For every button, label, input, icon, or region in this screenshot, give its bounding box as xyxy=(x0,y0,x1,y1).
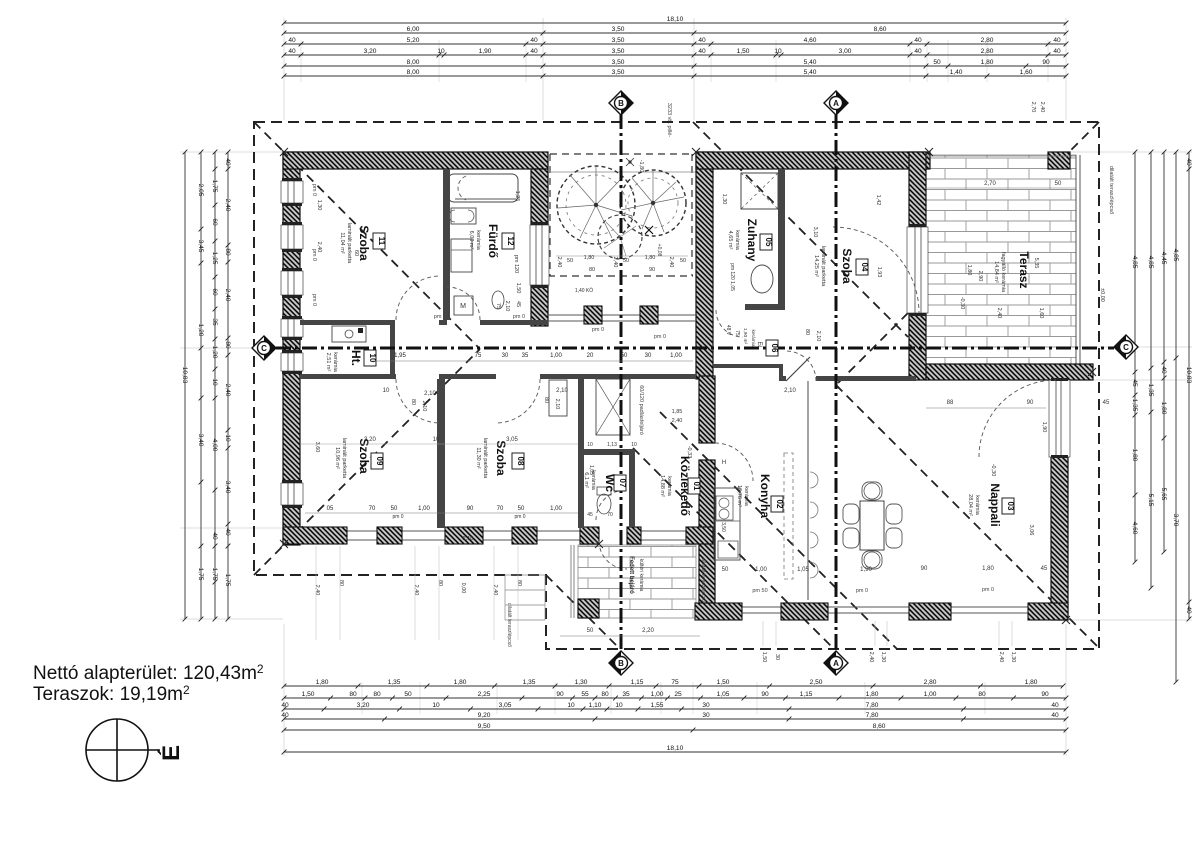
svg-text:1,20: 1,20 xyxy=(197,324,204,337)
svg-text:3,10: 3,10 xyxy=(812,227,818,238)
svg-text:25: 25 xyxy=(674,691,682,698)
svg-text:3,06: 3,06 xyxy=(1028,525,1034,536)
svg-text:15,76 m²: 15,76 m² xyxy=(736,485,742,507)
svg-text:5,15: 5,15 xyxy=(1147,494,1154,507)
svg-text:40: 40 xyxy=(281,702,289,709)
svg-text:3,20: 3,20 xyxy=(357,702,370,709)
svg-text:2,40: 2,40 xyxy=(224,384,231,397)
svg-text:50: 50 xyxy=(722,567,729,573)
svg-text:50: 50 xyxy=(587,628,594,634)
svg-text:4,60: 4,60 xyxy=(1131,522,1138,535)
svg-text:40: 40 xyxy=(1051,712,1059,719)
svg-text:1,20: 1,20 xyxy=(211,346,218,359)
svg-text:2,70: 2,70 xyxy=(984,181,996,187)
svg-text:40: 40 xyxy=(1053,48,1061,55)
svg-text:8,60: 8,60 xyxy=(873,723,886,730)
svg-text:4,45: 4,45 xyxy=(1160,252,1167,265)
svg-text:0,00: 0,00 xyxy=(460,583,466,594)
svg-text:80: 80 xyxy=(589,267,595,273)
svg-text:8,60: 8,60 xyxy=(874,26,887,33)
svg-text:kerámia: kerámia xyxy=(734,230,740,251)
svg-text:Fürdő: Fürdő xyxy=(486,224,500,258)
svg-text:2,10: 2,10 xyxy=(463,536,474,542)
svg-text:2,90: 2,90 xyxy=(977,271,983,282)
wall: courtyard east wall xyxy=(696,152,713,379)
svg-text:40: 40 xyxy=(1160,366,1167,374)
svg-text:1,80: 1,80 xyxy=(982,566,994,572)
svg-text:Fedett bejáró: Fedett bejáró xyxy=(628,556,634,594)
svg-text:1,35: 1,35 xyxy=(1147,384,1154,397)
svg-text:40: 40 xyxy=(530,48,538,55)
svg-text:10: 10 xyxy=(587,442,593,448)
svg-text:70: 70 xyxy=(369,506,376,512)
svg-text:40: 40 xyxy=(1185,606,1192,614)
wall: nappali east wall xyxy=(1051,457,1068,620)
svg-text:20: 20 xyxy=(587,353,594,359)
svg-text:40: 40 xyxy=(698,48,706,55)
washbasin (Zuhany) xyxy=(751,265,773,293)
wall between zuhany and szoba04 xyxy=(778,169,785,308)
svg-text:pm 50: pm 50 xyxy=(752,588,767,594)
svg-text:dilatált teraszlépcső: dilatált teraszlépcső xyxy=(506,603,512,647)
svg-text:50: 50 xyxy=(623,258,629,264)
svg-text:60/120 padlásfeljáró: 60/120 padlásfeljáró xyxy=(638,385,644,435)
svg-text:2,25: 2,25 xyxy=(478,691,491,698)
svg-text:3,50: 3,50 xyxy=(612,37,625,44)
svg-text:2,40: 2,40 xyxy=(224,289,231,302)
svg-text:1,05: 1,05 xyxy=(588,465,594,475)
svg-text:1,80: 1,80 xyxy=(645,255,656,261)
svg-text:60: 60 xyxy=(211,288,218,296)
svg-text:3,50: 3,50 xyxy=(720,522,726,532)
svg-text:1,80: 1,80 xyxy=(1131,449,1138,462)
svg-text:8,00: 8,00 xyxy=(407,69,420,76)
section marker A top xyxy=(824,91,848,115)
tree 3 (small) xyxy=(598,215,642,259)
svg-text:40: 40 xyxy=(224,528,231,536)
svg-text:10: 10 xyxy=(383,388,390,394)
svg-text:B: B xyxy=(618,659,624,668)
svg-text:55: 55 xyxy=(581,691,589,698)
svg-text:09: 09 xyxy=(375,457,384,466)
svg-text:1,05: 1,05 xyxy=(717,691,730,698)
svg-text:08: 08 xyxy=(516,457,525,466)
svg-text:50: 50 xyxy=(680,258,686,264)
svg-text:pm 0: pm 0 xyxy=(311,184,317,196)
svg-text:pm 0: pm 0 xyxy=(514,514,525,520)
svg-text:11,04 m²: 11,04 m² xyxy=(339,232,345,253)
svg-text:40: 40 xyxy=(1185,158,1192,166)
svg-text:11,30 m²: 11,30 m² xyxy=(475,447,481,468)
tree 1 xyxy=(557,166,635,244)
svg-text:1,90 m²: 1,90 m² xyxy=(742,328,748,345)
svg-text:40: 40 xyxy=(224,158,231,166)
svg-text:2,40: 2,40 xyxy=(316,242,322,253)
svg-text:40: 40 xyxy=(1053,37,1061,44)
washing machine M xyxy=(454,296,473,315)
svg-text:40: 40 xyxy=(914,48,922,55)
wall between rooms 09 and 08 xyxy=(437,379,445,528)
svg-text:80: 80 xyxy=(978,691,986,698)
svg-text:50: 50 xyxy=(1055,181,1062,187)
svg-text:1,80: 1,80 xyxy=(1025,679,1038,686)
wall: kitchen west wall upper xyxy=(699,376,715,443)
svg-text:1,00: 1,00 xyxy=(550,506,562,512)
svg-text:3,05: 3,05 xyxy=(499,702,512,709)
Ht east wall xyxy=(390,325,395,374)
svg-text:1,75: 1,75 xyxy=(211,180,218,193)
svg-text:90: 90 xyxy=(1041,691,1049,698)
svg-text:dilatált teraszlépcső: dilatált teraszlépcső xyxy=(700,558,706,602)
svg-text:60: 60 xyxy=(211,218,218,226)
svg-text:1,90: 1,90 xyxy=(479,48,492,55)
wall: west exterior wall xyxy=(283,152,300,545)
svg-text:5,65: 5,65 xyxy=(1160,488,1167,501)
svg-text:1,00: 1,00 xyxy=(651,691,664,698)
svg-text:2,40: 2,40 xyxy=(668,257,674,268)
bathtub (Furdo) xyxy=(448,174,518,202)
svg-text:80: 80 xyxy=(516,580,522,586)
svg-text:Terasz: Terasz xyxy=(1017,251,1031,288)
svg-text:1,60: 1,60 xyxy=(1020,69,1033,76)
svg-text:1,00: 1,00 xyxy=(418,506,430,512)
svg-text:3,50: 3,50 xyxy=(612,48,625,55)
svg-text:40: 40 xyxy=(288,37,296,44)
svg-text:3,45: 3,45 xyxy=(197,240,204,253)
zuhany south wall xyxy=(745,304,785,310)
wall: kitchen west wall lower xyxy=(699,460,715,607)
svg-text:10,96 m²: 10,96 m² xyxy=(334,447,340,469)
svg-text:3,50: 3,50 xyxy=(612,69,625,76)
wall: terrace west wall xyxy=(909,152,926,380)
svg-text:10: 10 xyxy=(774,48,782,55)
svg-text:Teraszok: 19,19m2: Teraszok: 19,19m2 xyxy=(33,683,190,705)
svg-text:10: 10 xyxy=(631,442,637,448)
corridor dimension row xyxy=(370,360,693,362)
svg-text:-0,33: -0,33 xyxy=(686,446,692,459)
svg-text:90: 90 xyxy=(1042,59,1050,66)
svg-text:40: 40 xyxy=(1051,702,1059,709)
svg-text:14,25 m²: 14,25 m² xyxy=(813,255,819,277)
window in courtyard west wall xyxy=(530,222,549,288)
svg-text:90: 90 xyxy=(649,267,655,273)
section marker C left xyxy=(252,336,276,360)
svg-text:40: 40 xyxy=(288,48,296,55)
svg-text:2,40: 2,40 xyxy=(492,585,498,596)
svg-text:1,00: 1,00 xyxy=(755,567,767,573)
svg-text:1,50: 1,50 xyxy=(717,679,730,686)
svg-text:50: 50 xyxy=(404,691,412,698)
bottom wall right wing: sill lines xyxy=(696,606,1068,608)
svg-text:2,40: 2,40 xyxy=(556,257,562,268)
svg-text:1,93: 1,93 xyxy=(876,267,882,278)
svg-text:70: 70 xyxy=(497,506,504,512)
svg-text:80: 80 xyxy=(437,580,443,586)
svg-text:75: 75 xyxy=(475,353,482,359)
svg-text:10: 10 xyxy=(615,702,623,709)
svg-text:1,10: 1,10 xyxy=(589,702,602,709)
section marker B top xyxy=(609,91,633,115)
svg-text:pm 0: pm 0 xyxy=(592,327,604,333)
svg-text:30: 30 xyxy=(645,353,652,359)
extension lines below walls xyxy=(315,546,317,640)
svg-text:2,80: 2,80 xyxy=(981,48,994,55)
svg-text:1,80: 1,80 xyxy=(866,691,879,698)
svg-text:40: 40 xyxy=(281,712,289,719)
svg-text:06: 06 xyxy=(770,344,779,353)
svg-text:2,70: 2,70 xyxy=(1030,102,1036,113)
bottom dimension block xyxy=(283,624,285,756)
svg-text:60: 60 xyxy=(353,250,359,256)
svg-text:2,50: 2,50 xyxy=(810,679,823,686)
svg-text:2,40: 2,40 xyxy=(996,308,1002,319)
svg-text:A: A xyxy=(833,659,839,668)
svg-text:7,80: 7,80 xyxy=(866,702,879,709)
svg-text:80: 80 xyxy=(224,341,231,349)
chairs xyxy=(843,504,859,524)
svg-text:4,65 m²: 4,65 m² xyxy=(727,231,733,250)
svg-text:3,50: 3,50 xyxy=(612,59,625,66)
svg-text:2,10: 2,10 xyxy=(784,388,796,394)
svg-text:1,80: 1,80 xyxy=(584,255,595,261)
svg-text:90: 90 xyxy=(921,566,928,572)
terrace door from szoba04 xyxy=(907,224,928,316)
svg-text:40: 40 xyxy=(530,37,538,44)
svg-text:28,04 m²: 28,04 m² xyxy=(967,494,973,516)
svg-text:07: 07 xyxy=(618,479,627,488)
corridor south wall seg3 xyxy=(540,374,696,379)
svg-text:1,00: 1,00 xyxy=(670,353,682,359)
svg-text:48 V: 48 V xyxy=(725,325,731,336)
svg-text:45: 45 xyxy=(587,512,593,518)
svg-text:2,10: 2,10 xyxy=(556,388,568,394)
svg-text:80: 80 xyxy=(804,329,810,335)
szoba04 south wall step xyxy=(779,364,783,381)
svg-text:90: 90 xyxy=(467,506,474,512)
svg-text:Ht.: Ht. xyxy=(349,350,363,366)
svg-text:11: 11 xyxy=(377,237,386,246)
svg-text:80: 80 xyxy=(601,691,609,698)
svg-text:É: É xyxy=(157,745,185,761)
right dimension block xyxy=(1068,151,1192,153)
svg-text:6,00: 6,00 xyxy=(407,26,420,33)
svg-text:14,84 m²: 14,84 m² xyxy=(993,261,999,283)
wall: porch pillar xyxy=(578,599,599,618)
svg-text:Szoba: Szoba xyxy=(840,248,854,284)
svg-text:M: M xyxy=(460,303,466,310)
svg-text:70: 70 xyxy=(607,512,613,518)
svg-text:1,30: 1,30 xyxy=(880,652,886,663)
svg-text:1,80: 1,80 xyxy=(966,265,972,276)
svg-text:80: 80 xyxy=(349,691,357,698)
svg-text:kerámia: kerámia xyxy=(332,352,338,373)
bottom wall left wing: sill lines xyxy=(283,530,695,532)
svg-text:1,05: 1,05 xyxy=(797,567,809,573)
svg-text:05: 05 xyxy=(327,506,334,512)
svg-text:10: 10 xyxy=(437,48,445,55)
corridor north wall seg3 xyxy=(480,320,548,325)
svg-text:2,40: 2,40 xyxy=(1039,102,1045,113)
svg-text:18,10: 18,10 xyxy=(667,745,684,752)
svg-text:C: C xyxy=(261,344,267,353)
svg-text:2,10: 2,10 xyxy=(421,401,427,412)
svg-text:1,75: 1,75 xyxy=(197,568,204,581)
svg-text:6,00 m²: 6,00 m² xyxy=(468,231,474,250)
svg-text:90: 90 xyxy=(556,691,564,698)
left dimension block xyxy=(180,151,283,153)
svg-text:5,40: 5,40 xyxy=(804,69,817,76)
corridor north wall seg2 xyxy=(439,320,447,325)
svg-text:80: 80 xyxy=(373,691,381,698)
wall room08 east xyxy=(578,379,584,528)
svg-text:kerámia: kerámia xyxy=(475,230,481,251)
svg-text:B: B xyxy=(618,99,624,108)
section marker B bottom xyxy=(609,651,633,675)
svg-text:H: H xyxy=(722,460,726,466)
svg-text:40: 40 xyxy=(211,532,218,540)
svg-text:1,60: 1,60 xyxy=(1038,308,1044,319)
svg-text:1,30: 1,30 xyxy=(721,194,727,205)
svg-text:04: 04 xyxy=(860,263,869,272)
svg-text:Szoba: Szoba xyxy=(357,438,371,474)
svg-text:1,80: 1,80 xyxy=(316,679,329,686)
wall: north wall left wing xyxy=(283,152,548,169)
svg-text:75: 75 xyxy=(734,330,740,336)
svg-text:80: 80 xyxy=(338,580,344,586)
svg-text:2,80: 2,80 xyxy=(981,37,994,44)
svg-text:2,10: 2,10 xyxy=(424,391,436,397)
dining table xyxy=(860,501,884,550)
svg-text:30: 30 xyxy=(702,702,710,709)
svg-text:Konyha: Konyha xyxy=(758,474,772,518)
svg-text:Eł.: Eł. xyxy=(756,341,762,348)
door swing arcs xyxy=(396,276,440,320)
wall: courtyard west wall xyxy=(531,169,548,326)
svg-text:10: 10 xyxy=(368,354,377,363)
section line A-A vertical xyxy=(835,114,838,652)
svg-text:pm 0: pm 0 xyxy=(654,334,666,340)
section marker C right xyxy=(1114,335,1138,359)
svg-text:1,42: 1,42 xyxy=(875,195,881,206)
svg-text:45: 45 xyxy=(1041,566,1048,572)
svg-text:2,80: 2,80 xyxy=(924,679,937,686)
label 06 xyxy=(766,340,778,356)
wc east wall xyxy=(629,449,635,527)
svg-text:05: 05 xyxy=(764,238,773,247)
svg-text:2,20: 2,20 xyxy=(642,628,654,634)
svg-text:pm 0: pm 0 xyxy=(513,314,525,320)
svg-text:01: 01 xyxy=(692,482,701,491)
svg-text:laminált parketta: laminált parketta xyxy=(346,223,352,264)
washbasin (Furdo) xyxy=(451,208,476,224)
svg-text:2,40: 2,40 xyxy=(612,257,618,268)
attic hatch xyxy=(596,379,630,435)
svg-text:10: 10 xyxy=(211,378,218,386)
courtyard pergola dashed edge xyxy=(548,275,693,277)
svg-text:pm 0: pm 0 xyxy=(392,514,403,520)
svg-text:10: 10 xyxy=(433,437,440,443)
svg-text:80: 80 xyxy=(543,397,549,403)
svg-text:Nappali: Nappali xyxy=(988,483,1002,526)
svg-text:Nettó alapterület: 120,43m2: Nettó alapterület: 120,43m2 xyxy=(33,662,264,684)
svg-text:4,85: 4,85 xyxy=(1147,256,1154,269)
svg-text:12: 12 xyxy=(506,237,515,246)
svg-text:kerámia: kerámia xyxy=(750,329,756,346)
svg-text:1,80: 1,80 xyxy=(454,679,467,686)
nappali terrace glass door xyxy=(1049,378,1070,458)
svg-text:kültéri kerámia: kültéri kerámia xyxy=(638,559,644,592)
svg-text:±0,00: ±0,00 xyxy=(1099,288,1105,302)
toilet (Wc) xyxy=(597,487,611,495)
svg-text:8,00: 8,00 xyxy=(407,59,420,66)
svg-text:50: 50 xyxy=(933,59,941,66)
svg-text:4,85: 4,85 xyxy=(1172,249,1179,262)
svg-text:1,75: 1,75 xyxy=(211,568,218,581)
svg-text:45: 45 xyxy=(1131,379,1138,387)
svg-text:2,51 m²: 2,51 m² xyxy=(325,353,331,372)
svg-text:1,90: 1,90 xyxy=(1041,422,1047,433)
tree 2 xyxy=(620,170,686,236)
entry porch paving xyxy=(578,545,696,618)
svg-text:2,05: 2,05 xyxy=(197,184,204,197)
svg-text:1,35: 1,35 xyxy=(388,679,401,686)
svg-text:2,10: 2,10 xyxy=(815,331,821,342)
svg-text:3,50: 3,50 xyxy=(612,26,625,33)
szoba04 south wall a xyxy=(713,364,779,368)
svg-text:1,25: 1,25 xyxy=(514,191,520,202)
svg-text:pm 120 1,05: pm 120 1,05 xyxy=(729,263,735,291)
svg-text:1,95: 1,95 xyxy=(394,353,406,359)
svg-text:pm 0: pm 0 xyxy=(982,587,994,593)
svg-text:3,00: 3,00 xyxy=(839,48,852,55)
svg-text:pm 120: pm 120 xyxy=(513,255,519,273)
svg-text:2,40: 2,40 xyxy=(998,652,1004,663)
svg-text:45: 45 xyxy=(1103,400,1110,406)
corner setting-out marks xyxy=(280,148,288,156)
svg-text:-1,80: -1,80 xyxy=(638,160,644,173)
svg-text:02: 02 xyxy=(775,500,784,509)
svg-text:Zuhany: Zuhany xyxy=(745,219,759,262)
wc north wall xyxy=(578,449,631,455)
svg-text:pm 0: pm 0 xyxy=(311,294,317,306)
svg-text:1,00: 1,00 xyxy=(550,353,562,359)
svg-text:A: A xyxy=(833,99,839,108)
terrace paving (brick grid) xyxy=(926,155,1076,364)
svg-text:5,20: 5,20 xyxy=(407,37,420,44)
svg-text:1,50: 1,50 xyxy=(761,652,767,663)
svg-text:10,83: 10,83 xyxy=(1185,367,1192,384)
svg-text:1,40: 1,40 xyxy=(950,69,963,76)
svg-text:pm 0: pm 0 xyxy=(856,588,868,594)
north symbol xyxy=(86,719,148,781)
svg-text:50: 50 xyxy=(518,506,525,512)
svg-text:2,40: 2,40 xyxy=(868,652,874,663)
section line C-C horizontal xyxy=(276,347,1114,350)
svg-text:35: 35 xyxy=(622,691,630,698)
svg-text:35: 35 xyxy=(522,353,529,359)
svg-text:C: C xyxy=(1123,343,1129,352)
bottom-right wall piers xyxy=(695,603,742,620)
svg-text:kerámia: kerámia xyxy=(666,476,672,497)
boiler (Ht) xyxy=(332,326,366,342)
svg-text:3,40: 3,40 xyxy=(197,434,204,447)
svg-text:75: 75 xyxy=(671,679,679,686)
wall: terrace north column xyxy=(1048,152,1070,169)
svg-text:1,50: 1,50 xyxy=(737,48,750,55)
svg-text:50: 50 xyxy=(621,353,628,359)
svg-text:10: 10 xyxy=(432,702,440,709)
svg-text:1,15: 1,15 xyxy=(800,691,813,698)
